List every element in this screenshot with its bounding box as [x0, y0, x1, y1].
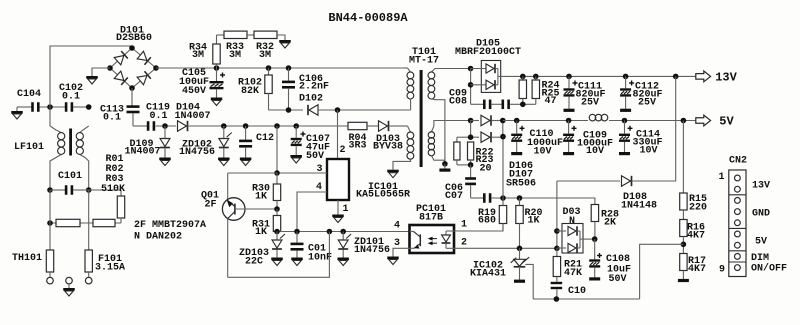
svg-text:1N4756: 1N4756 [354, 245, 390, 256]
svg-text:LF101: LF101 [14, 142, 44, 153]
zener ZD101 [337, 232, 390, 266]
node (IC102 top) [517, 246, 523, 252]
label 2F MMBT2907A [134, 220, 206, 231]
wire [390, 125, 405, 127]
transformer secondary winding 2 [428, 121, 470, 164]
svg-text:2K: 2K [604, 218, 616, 229]
line filter LF101 [14, 126, 89, 190]
wire [318, 109, 411, 111]
label ON/OFF [751, 263, 787, 275]
terminal (F101) [85, 277, 92, 284]
label IC101 [356, 182, 410, 201]
node (pin3/R30) [274, 170, 280, 176]
svg-text:N DAN202: N DAN202 [134, 232, 182, 243]
capacitor C112 [620, 76, 662, 111]
LED (PC101) [442, 231, 454, 248]
wire [92, 68, 110, 76]
zener ZD102 [179, 126, 232, 166]
wire [633, 76, 676, 181]
node [468, 82, 474, 88]
node (bridge left) [107, 65, 113, 71]
node (C101 left) [47, 187, 53, 193]
diode D107 [471, 132, 503, 142]
svg-text:C12: C12 [256, 133, 274, 144]
transformer T101 label [409, 47, 439, 67]
node [500, 118, 506, 124]
wire (pin1 to R19) [454, 224, 503, 232]
label 5V [755, 237, 767, 248]
resistor R102 [238, 68, 272, 110]
svg-text:680: 680 [478, 216, 496, 227]
capacitor C109 [563, 121, 613, 158]
svg-text:9: 9 [719, 265, 725, 276]
svg-text:1N4007: 1N4007 [174, 111, 210, 122]
bridge diode top-left [114, 51, 128, 65]
ground (R17) [678, 271, 689, 283]
diode D03 lower [557, 243, 580, 252]
output arrow 5V [696, 115, 735, 129]
wire (feedback row) [277, 231, 410, 233]
resistor R01 R02 R03 510K (vertical) [101, 154, 125, 223]
svg-text:D2SB60: D2SB60 [116, 33, 152, 44]
label PC101 [416, 204, 446, 224]
wire (IC102 ref) [525, 264, 533, 299]
wire (5V sense) [502, 137, 504, 198]
capacitor C119 [146, 103, 170, 131]
svg-text:3R3: 3R3 [348, 141, 366, 152]
svg-text:3.15A: 3.15A [95, 263, 125, 274]
capacitor C110 [511, 121, 563, 158]
label N DAN202 [134, 232, 182, 243]
svg-text:25V: 25V [638, 98, 656, 109]
node [468, 134, 474, 140]
label DIM [751, 253, 769, 264]
resistor R31 [252, 209, 281, 238]
node (bridge bottom) [129, 85, 135, 91]
resistor R15 [680, 193, 707, 214]
node (center tap) [442, 161, 448, 167]
svg-text:47: 47 [544, 96, 556, 107]
bridge rectifier D101 frame [110, 48, 156, 88]
wire [457, 164, 471, 166]
svg-text:MT-17: MT-17 [409, 56, 439, 67]
bridge diode bottom-left [114, 71, 128, 85]
pin 3 label [316, 164, 322, 175]
wire [502, 121, 504, 138]
svg-text:10nF: 10nF [308, 253, 332, 264]
svg-text:510K: 510K [101, 184, 125, 195]
resistor R28 [591, 198, 619, 239]
node (C107 junction) [293, 123, 299, 129]
svg-text:3M: 3M [192, 50, 204, 61]
pin 1 label [342, 204, 348, 215]
resistor R19 [478, 198, 507, 231]
wire [73, 106, 89, 108]
node (C106 bottom) [286, 107, 292, 113]
label GND [752, 209, 770, 220]
svg-text:817B: 817B [419, 213, 443, 224]
resistor R01 (body A) [56, 219, 80, 226]
capacitor C09 C08 (snubber) [449, 89, 536, 110]
resistor R17 [680, 254, 706, 276]
resistor R22 [454, 137, 460, 165]
svg-text:C07: C07 [445, 191, 463, 202]
transformer aux winding [393, 126, 414, 170]
node (D109 junction) [162, 123, 168, 129]
pin 2 label [461, 238, 467, 249]
node (C101 right) [86, 187, 92, 193]
capacitor C12 [239, 126, 274, 166]
terminal (TH101) [47, 277, 54, 284]
svg-text:2F MMBT2907A: 2F MMBT2907A [134, 220, 206, 231]
wire [17, 106, 32, 108]
svg-text:1N4007: 1N4007 [124, 147, 160, 158]
transformer secondary winding 1 [428, 69, 471, 164]
phototransistor (PC101) [410, 231, 421, 248]
resistor R16 [680, 220, 705, 242]
ground (R32) [279, 40, 291, 48]
diode D03 upper [557, 226, 580, 235]
svg-text:10V: 10V [533, 147, 551, 158]
node (C102 right junction) [86, 104, 92, 110]
wire [50, 222, 121, 224]
svg-text:C10: C10 [568, 286, 586, 297]
ground (IC102) [514, 280, 525, 283]
capacitor C114 [619, 121, 663, 157]
svg-text:DIM: DIM [751, 253, 769, 264]
wire [367, 125, 378, 127]
svg-text:50V: 50V [609, 274, 627, 285]
node (D03 lower anode) [554, 246, 560, 252]
node (bridge right) [153, 65, 159, 71]
diode D106 [471, 115, 503, 125]
svg-text:C101: C101 [58, 171, 82, 182]
svg-text:5V: 5V [755, 237, 767, 248]
wire (D108 feed) [556, 181, 558, 248]
resistor R33 [224, 31, 247, 61]
transistor Q01 [201, 173, 245, 277]
svg-text:22C: 22C [245, 257, 263, 268]
wire (pin4) [297, 192, 327, 232]
diode D109 [124, 126, 170, 166]
ground (bridge left) [86, 76, 98, 84]
capacitor C106 [282, 68, 329, 110]
svg-text:MBRF20100CT: MBRF20100CT [455, 47, 521, 58]
wire [247, 34, 254, 36]
diode D103 [373, 121, 403, 153]
resistor R02 (body B) [93, 219, 115, 226]
node (C104/C102 junction) [47, 104, 53, 110]
svg-text:13V: 13V [752, 181, 770, 192]
wire (snubber row) [269, 109, 304, 111]
wire [277, 35, 285, 40]
svg-text:47K: 47K [564, 268, 582, 279]
svg-text:13V: 13V [715, 71, 737, 85]
svg-text:0.1: 0.1 [149, 111, 167, 122]
pin 1 label [461, 220, 467, 231]
pin 9 label [719, 265, 725, 276]
node (bridge top) [129, 45, 135, 51]
connector CN2 [729, 156, 747, 277]
node (C106 top) [286, 65, 292, 71]
svg-text:1K: 1K [527, 216, 539, 227]
title BN44-00089A [328, 11, 408, 25]
bridge diode bottom-right [137, 71, 151, 85]
node (loop tap) [327, 229, 333, 235]
node (C01 top) [294, 229, 300, 235]
wire (5V rail) [503, 120, 696, 122]
svg-text:1N4148: 1N4148 [621, 201, 657, 212]
node (D03 upper anode) [554, 228, 560, 234]
wire [49, 190, 51, 250]
wire [188, 125, 349, 127]
wire (bottom rail) [533, 298, 639, 300]
node (C12 junction) [243, 123, 249, 129]
capacitor C108 [589, 239, 631, 285]
resistor R32 [254, 31, 277, 61]
resistor R20 [516, 198, 543, 248]
svg-text:BN44-00089A: BN44-00089A [328, 11, 408, 25]
op-amp U IC101 box [327, 159, 349, 200]
node (D106/D107 out) [500, 134, 506, 140]
svg-text:0.1: 0.1 [62, 92, 80, 103]
wire [217, 34, 225, 36]
node (C110 top) [514, 118, 520, 124]
capacitor C101 [50, 171, 89, 195]
ground (IC101 pin1) [332, 200, 344, 223]
diode D104 [174, 103, 210, 132]
bridge diode top-right [137, 51, 151, 65]
thermistor TH101 [12, 250, 54, 277]
wire (pin2 row) [454, 247, 557, 249]
svg-text:4: 4 [316, 182, 322, 193]
svg-text:20: 20 [479, 164, 491, 175]
node (R22/R23 bottom) [468, 162, 474, 168]
wire [40, 106, 65, 108]
wire (loop to bridge top) [50, 46, 132, 107]
pin 3 label [394, 238, 400, 249]
svg-text:4K7: 4K7 [687, 231, 705, 242]
node (R15 column top) [681, 118, 687, 124]
svg-text:2.2nF: 2.2nF [299, 82, 329, 93]
resistor R23 [468, 142, 494, 175]
label D101 [116, 26, 152, 45]
node (secondary 2 top) [468, 118, 474, 124]
wire [49, 107, 51, 126]
resistor R24 [519, 76, 526, 104]
svg-text:N: N [569, 216, 575, 227]
wire [682, 237, 684, 254]
wire [88, 190, 90, 250]
wire [682, 210, 684, 220]
wire [557, 180, 620, 182]
capacitor C06 [445, 165, 476, 202]
wire (Q01 emitter row) [228, 172, 277, 174]
capacitor C10 [551, 277, 586, 300]
dual diode D03 box [562, 207, 583, 253]
capacitor C105 [179, 68, 225, 106]
node (R28/D03/C108) [592, 236, 598, 242]
node (R24 top) [520, 74, 526, 80]
node (Q01 base node) [274, 206, 280, 212]
wire (to IC101 pin 2 drain) [337, 110, 339, 159]
wire (Q01 base) [235, 208, 277, 210]
wire [470, 121, 472, 138]
svg-text:450V: 450V [182, 86, 206, 97]
svg-text:1K: 1K [255, 192, 267, 203]
node (R31 bottom) [274, 229, 280, 235]
wire (D03 cathodes) [580, 231, 595, 248]
svg-text:1: 1 [718, 172, 724, 183]
svg-text:CN2: CN2 [729, 156, 747, 167]
wire (DIM) [640, 244, 684, 299]
svg-text:KA5L0565R: KA5L0565R [356, 190, 410, 201]
ground (aux winding) [387, 170, 399, 178]
ground (earth) [63, 284, 75, 296]
terminal (earth) [66, 277, 73, 284]
wire [131, 88, 133, 106]
resistor R04 [348, 122, 367, 151]
node (C111 top) [566, 74, 572, 80]
pin 1 label [718, 172, 724, 183]
svg-text:220: 220 [689, 203, 707, 214]
shunt regulator IC102 [470, 248, 529, 279]
node (C10 bottom) [554, 296, 560, 302]
svg-text:GND: GND [752, 209, 770, 220]
svg-text:2F: 2F [204, 200, 216, 211]
optocoupler PC101 box [410, 225, 455, 253]
node (IC101 pin3 feed) [274, 123, 280, 129]
node (TH101 top) [47, 220, 53, 226]
zener ZD103 [239, 232, 285, 268]
wire (to IC101 pin 3) [276, 126, 278, 173]
capacitor C01 [291, 232, 333, 266]
svg-text:5V: 5V [719, 115, 734, 129]
node (R102 top) [266, 65, 272, 71]
svg-text:3M: 3M [229, 50, 241, 61]
svg-text:BYV38: BYV38 [373, 142, 403, 153]
svg-text:1K: 1K [255, 227, 267, 238]
capacitor C102 [59, 83, 83, 112]
svg-text:SR506: SR506 [506, 179, 536, 190]
svg-text:C08: C08 [449, 97, 467, 108]
svg-text:2: 2 [461, 238, 467, 249]
resistor R34 [189, 35, 220, 68]
wire [133, 114, 147, 127]
transformer primary winding [403, 68, 414, 110]
light arrows (PC101) [428, 237, 437, 246]
svg-text:25V: 25V [581, 98, 599, 109]
ground (AC input left) [11, 107, 23, 119]
svg-text:10V: 10V [586, 146, 604, 157]
svg-text:TH101: TH101 [12, 253, 42, 264]
label 13V [752, 181, 770, 192]
node (DIM tap) [681, 242, 687, 248]
svg-text:3: 3 [394, 238, 400, 249]
capacitor C104 [17, 89, 41, 112]
output arrow 13V [696, 71, 738, 85]
node (secondary top) [468, 66, 474, 72]
fuse F101 [85, 250, 125, 277]
transformer core [420, 70, 423, 167]
diode D102 [299, 94, 323, 116]
svg-text:D102: D102 [299, 94, 323, 105]
diode D108 [621, 176, 657, 212]
svg-text:4: 4 [394, 221, 400, 232]
svg-text:3M: 3M [259, 50, 271, 61]
capacitor C07 [471, 193, 592, 203]
capacitor C107 [290, 126, 330, 163]
node (D102/primary junction) [335, 107, 341, 113]
svg-text:82K: 82K [241, 86, 259, 97]
wire (13V rail) [501, 75, 696, 77]
capacitor C113 [100, 105, 140, 124]
wire [156, 125, 176, 127]
resistor R30 [252, 173, 281, 209]
wire (to 510K) [89, 189, 121, 191]
node (ZD102 junction) [221, 123, 227, 129]
svg-text:C104: C104 [17, 89, 41, 100]
svg-text:1: 1 [461, 220, 467, 231]
node (C112 top) [623, 74, 629, 80]
pin 4 label [394, 221, 400, 232]
node (R34 bottom) [214, 65, 220, 71]
pin 4 label [316, 182, 322, 193]
capacitor C111 [564, 76, 606, 111]
node (R24 bottom) [520, 102, 526, 108]
wire (main DC rail) [156, 67, 404, 69]
node (D108 column top) [673, 74, 679, 80]
svg-text:1N4756: 1N4756 [179, 147, 215, 158]
node (R25 top) [533, 74, 539, 80]
rectifier D105 [455, 39, 521, 93]
pin 2 label [339, 145, 345, 156]
label D106 D107 SR506 [506, 161, 536, 190]
svg-text:2: 2 [339, 145, 345, 156]
wire (R22/R23 row) [457, 136, 471, 138]
resistor R25 [532, 76, 559, 107]
ground (PC101 pin3) [387, 248, 409, 264]
svg-text:4K7: 4K7 [688, 264, 706, 275]
ground (center tap) [439, 164, 450, 172]
node (ZD101 top) [340, 229, 346, 235]
svg-text:KIA431: KIA431 [470, 269, 506, 280]
svg-text:10V: 10V [639, 146, 657, 157]
resistor R21 [553, 248, 582, 279]
inductor (5V rail) [589, 114, 608, 121]
node (R19 top) [500, 195, 506, 201]
node (R20 top) [517, 195, 523, 201]
svg-text:C108: C108 [606, 254, 630, 265]
wire (pin3 row) [277, 172, 327, 174]
node (C109 top) [566, 118, 572, 124]
wire (Q01 collector loop) [228, 232, 330, 278]
svg-text:ON/OFF: ON/OFF [751, 263, 787, 275]
svg-text:1: 1 [342, 204, 348, 215]
svg-text:50V: 50V [306, 151, 324, 162]
node (C114 top) [622, 118, 628, 124]
svg-text:0.1: 0.1 [103, 113, 121, 124]
wire [470, 69, 472, 105]
wire [682, 121, 684, 194]
